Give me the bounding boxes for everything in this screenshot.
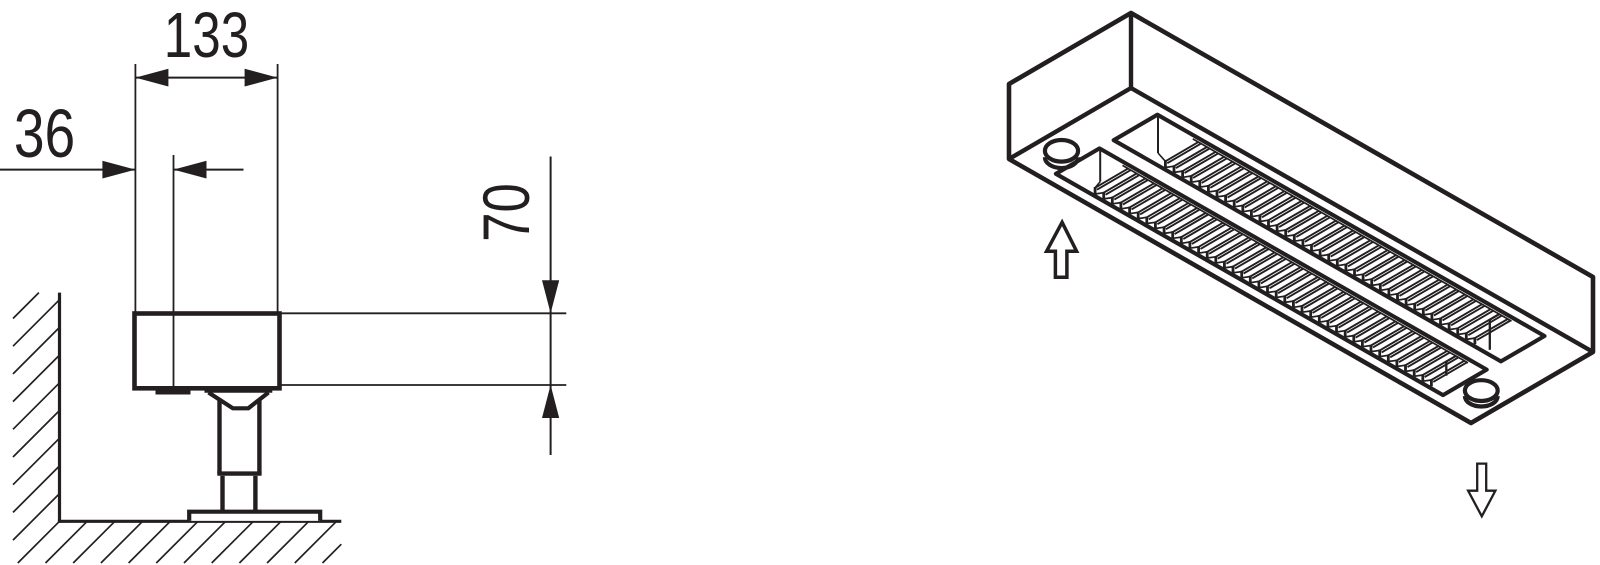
slot near (front heat-exchanger opening) rim: [1056, 148, 1487, 395]
left view: wall-mounted convector cross-section with dimensions: [0, 1, 566, 563]
extension line bracket axis (x=173): [173, 155, 175, 388]
stand funnel cone: [209, 393, 269, 409]
dimension 36 arrowheads: [102, 161, 135, 179]
profile inner line (bracket axis through box): [173, 314, 175, 389]
airflow arrow up (inlet): [1047, 222, 1077, 277]
slot near (front heat-exchanger opening) right end wall: [1445, 362, 1447, 376]
airflow arrow down (outlet): [1468, 464, 1495, 517]
pipe stub right: [1465, 380, 1498, 401]
wall face line: [58, 293, 61, 523]
stand lower column: [220, 476, 224, 512]
pipe stub left: [1045, 140, 1078, 162]
stand funnel top line: [205, 389, 273, 393]
slot far (back heat-exchanger opening) left end wall: [1157, 116, 1159, 153]
svg-text:36: 36: [14, 95, 75, 172]
dimension 133 line: [135, 77, 277, 79]
slot far (back heat-exchanger opening) fins: [1165, 142, 1510, 340]
slot near (front heat-exchanger opening) fin top edge line: [1123, 165, 1469, 363]
3D housing silhouette: [1009, 13, 1593, 423]
stand column: [217, 400, 221, 474]
edge left end / side face: [1009, 13, 1593, 352]
slot far (back heat-exchanger opening) fin top edge line: [1193, 139, 1512, 321]
dimension 133 arrowheads: [135, 69, 168, 87]
slot near (front heat-exchanger opening) left end wall: [1099, 150, 1101, 182]
dimension 70 line: [550, 157, 552, 456]
extension line left (x=135): [134, 64, 136, 314]
slot far (back heat-exchanger opening) right end wall: [1489, 320, 1491, 350]
dimension 36 leader left: [0, 169, 135, 171]
right view: 3D housing seen from below: [1009, 13, 1593, 516]
svg-text:133: 133: [164, 1, 249, 72]
dimension 70 arrowheads: [542, 280, 559, 313]
extension line top of profile: [281, 312, 566, 314]
foot plate: [189, 512, 320, 521]
wall and floor hatching: [13, 293, 341, 563]
slot far (back heat-exchanger opening) rim: [1114, 115, 1545, 362]
svg-text:70: 70: [469, 183, 543, 242]
extension line bottom of profile: [281, 384, 566, 386]
radiator profile cross-section: [135, 314, 280, 389]
extension line right (x=277): [277, 64, 279, 314]
slot near (front heat-exchanger opening) fins: [1095, 169, 1467, 382]
floor line: [58, 520, 341, 523]
bracket mark under profile: [156, 390, 191, 394]
dimension 36 leader right: [174, 169, 244, 171]
